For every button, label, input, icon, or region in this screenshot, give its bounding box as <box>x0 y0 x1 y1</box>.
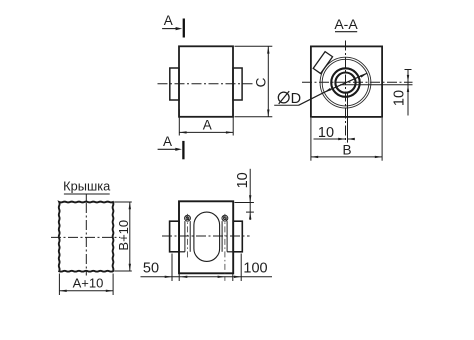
vertical center line <box>345 41 347 143</box>
svg-text:10: 10 <box>318 125 334 141</box>
svg-text:50: 50 <box>143 261 159 277</box>
front view body outline <box>179 46 233 117</box>
svg-text:100: 100 <box>243 261 267 277</box>
dimension 10 assembly arrowheads <box>249 195 251 202</box>
horizontal center line <box>302 81 413 83</box>
assembly body outline <box>179 201 233 273</box>
section plane marker A bottom <box>158 134 184 159</box>
leader shelf under diameter label <box>274 104 298 106</box>
assembly horizontal center line <box>162 235 250 237</box>
svg-text:A: A <box>164 13 173 28</box>
svg-text:Крышка: Крышка <box>63 178 111 193</box>
assembly right tab <box>233 221 242 252</box>
outer ring circle (inner) <box>322 59 369 106</box>
dimension 10 slit arrowheads <box>338 138 345 140</box>
screw right axis <box>224 214 226 281</box>
svg-text:A+10: A+10 <box>73 276 104 291</box>
dimension A arrowheads <box>179 131 186 133</box>
vertical slit line <box>347 93 349 143</box>
dimension A (front view bottom) <box>179 109 233 135</box>
svg-text:10: 10 <box>235 172 251 188</box>
dimension 10 (assembly top right) <box>235 169 254 220</box>
dimension 50/100 chain arrowheads <box>165 276 172 278</box>
dimension B (section bottom) <box>311 118 382 161</box>
dimension B+10 arrowheads <box>129 202 131 209</box>
dimension B+10 <box>114 202 132 271</box>
dimension A+10 <box>59 274 113 296</box>
tab inner bottom line left <box>179 251 185 253</box>
dimension 10 right arrowheads <box>407 75 409 82</box>
front view horizontal center line <box>158 83 255 85</box>
leader arrowhead upper-right <box>360 73 367 77</box>
diameter symbol of label D <box>278 91 289 104</box>
front view left boss tab <box>170 68 179 100</box>
horizontal slit line <box>340 84 413 86</box>
capsule slot <box>194 212 220 261</box>
svg-text:A: A <box>203 118 212 133</box>
front view right boss tab <box>233 68 242 100</box>
section square body <box>311 46 382 117</box>
dimension 10 right of section <box>405 70 412 116</box>
screw left shank <box>184 221 186 252</box>
screw left head <box>185 215 191 221</box>
dimension B arrowheads <box>311 156 318 158</box>
screw right shank <box>221 221 223 252</box>
dimension C (front view right) <box>235 46 273 117</box>
dimension 10 bottom slit of section <box>314 138 346 140</box>
svg-text:A-A: A-A <box>334 16 358 32</box>
diameter leader line <box>299 73 368 105</box>
svg-text:B: B <box>342 142 351 157</box>
bore circle thick inner <box>335 73 355 93</box>
dimension A+10 arrowheads <box>59 290 66 292</box>
assembly left tab <box>170 221 180 252</box>
outer ring circle (outer) <box>320 57 371 108</box>
tab inner bottom line right <box>227 251 233 253</box>
cover body wavy rectangle <box>59 202 114 272</box>
cover horizontal center line <box>51 236 120 238</box>
screw left axis <box>187 214 189 258</box>
cover leader line <box>85 194 87 203</box>
section plane marker A top <box>162 13 184 38</box>
svg-text:A: A <box>163 134 172 149</box>
cover vertical center line <box>85 203 87 276</box>
bore circle thick outer <box>331 68 360 97</box>
leader arrowhead lower-left <box>324 88 331 92</box>
svg-text:B+10: B+10 <box>116 220 131 251</box>
svg-text:10: 10 <box>392 90 408 106</box>
bottom dimension line 50 / 100 <box>141 254 273 282</box>
dimension C arrowheads <box>267 46 269 53</box>
svg-text:C: C <box>253 77 268 87</box>
rotated tab at ring top-left <box>313 52 332 74</box>
screw right head <box>222 215 228 221</box>
